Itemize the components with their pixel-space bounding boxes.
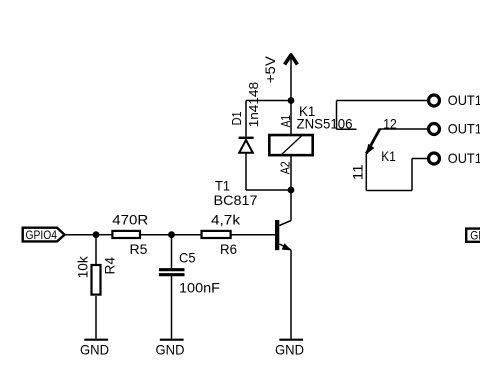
wire bbox=[171, 235, 173, 269]
transistor T1 bbox=[275, 220, 292, 250]
svg-text:OUT1: OUT1 bbox=[448, 120, 480, 136]
wire bbox=[290, 250, 292, 339]
svg-text:4,7k: 4,7k bbox=[211, 212, 241, 228]
node GPIO (clipped) bbox=[466, 229, 480, 243]
svg-text:A2: A2 bbox=[278, 161, 293, 174]
pin OUT1 bbox=[429, 150, 480, 166]
ground bbox=[156, 340, 185, 358]
wire bbox=[95, 296, 97, 339]
pin OUT1 bbox=[429, 120, 480, 136]
junction bbox=[168, 231, 175, 238]
value label 10k bbox=[74, 255, 90, 278]
power +5V bbox=[263, 54, 297, 101]
svg-text:BC817: BC817 bbox=[214, 192, 258, 208]
value label 470R bbox=[112, 212, 148, 228]
svg-text:OUT1: OUT1 bbox=[448, 150, 480, 166]
name label T1 bbox=[215, 177, 230, 193]
ground bbox=[80, 340, 109, 358]
pin OUT1 bbox=[429, 92, 480, 108]
wire bbox=[232, 234, 276, 236]
svg-text:OUT1: OUT1 bbox=[448, 92, 480, 108]
wire bbox=[96, 234, 112, 236]
wire bbox=[336, 101, 338, 130]
junction bbox=[288, 97, 295, 104]
junction bbox=[288, 187, 295, 194]
resistor R5 bbox=[112, 231, 140, 238]
wire bbox=[412, 158, 427, 160]
name label K1 bbox=[381, 148, 396, 164]
svg-text:GND: GND bbox=[80, 342, 109, 358]
wire bbox=[290, 190, 292, 221]
svg-text:GPIO: GPIO bbox=[470, 229, 480, 243]
value label BC817 bbox=[214, 192, 258, 208]
relay coil K1 bbox=[269, 135, 312, 157]
wire bbox=[380, 128, 427, 130]
resistor R6 bbox=[202, 231, 231, 238]
wire bbox=[365, 154, 367, 191]
value label 1n4148 bbox=[246, 82, 261, 127]
svg-text:R5: R5 bbox=[130, 241, 148, 257]
wire bbox=[95, 235, 97, 264]
svg-text:R6: R6 bbox=[220, 241, 237, 257]
pin label A1 bbox=[278, 115, 293, 127]
name label K1 bbox=[299, 103, 316, 119]
name label R5 bbox=[130, 241, 148, 257]
svg-text:GND: GND bbox=[156, 342, 185, 358]
diode D1 bbox=[239, 101, 254, 191]
svg-text:C5: C5 bbox=[179, 250, 196, 266]
wire bbox=[366, 190, 412, 192]
svg-text:100nF: 100nF bbox=[179, 280, 220, 296]
svg-text:D1: D1 bbox=[229, 111, 244, 125]
pin label A2 bbox=[278, 161, 293, 174]
svg-text:GPIO4: GPIO4 bbox=[26, 228, 58, 242]
wire bbox=[171, 276, 173, 339]
svg-text:R4: R4 bbox=[102, 257, 118, 275]
svg-text:GND: GND bbox=[275, 342, 304, 358]
svg-text:10k: 10k bbox=[74, 255, 90, 278]
pin label 11 bbox=[350, 164, 365, 180]
wire bbox=[290, 101, 292, 135]
wire bbox=[246, 189, 291, 191]
wire bbox=[337, 100, 428, 102]
ground bbox=[275, 340, 304, 358]
wire bbox=[290, 157, 292, 191]
name label D1 bbox=[229, 111, 244, 125]
svg-text:470R: 470R bbox=[112, 212, 148, 228]
wire bbox=[411, 159, 413, 191]
value label 100nF bbox=[179, 280, 220, 296]
resistor R4 bbox=[92, 265, 101, 295]
svg-text:1n4148: 1n4148 bbox=[246, 82, 261, 127]
name label R6 bbox=[220, 241, 237, 257]
junction bbox=[93, 231, 100, 238]
wire bbox=[66, 234, 96, 236]
svg-text:11: 11 bbox=[350, 164, 365, 180]
svg-text:K1: K1 bbox=[381, 148, 396, 164]
wire bbox=[337, 128, 357, 130]
pin label 12 bbox=[383, 117, 397, 132]
wire bbox=[246, 100, 291, 102]
name label C5 bbox=[179, 250, 196, 266]
svg-text:+5V: +5V bbox=[263, 56, 278, 83]
value label ZNS5106 bbox=[297, 115, 353, 131]
name label R4 bbox=[102, 257, 118, 275]
value label 4,7k bbox=[211, 212, 241, 228]
relay contact K1 bbox=[366, 129, 380, 155]
svg-text:A1: A1 bbox=[278, 115, 293, 127]
capacitor C5 bbox=[159, 270, 185, 275]
wire bbox=[141, 234, 201, 236]
node GPIO4 bbox=[23, 228, 65, 242]
